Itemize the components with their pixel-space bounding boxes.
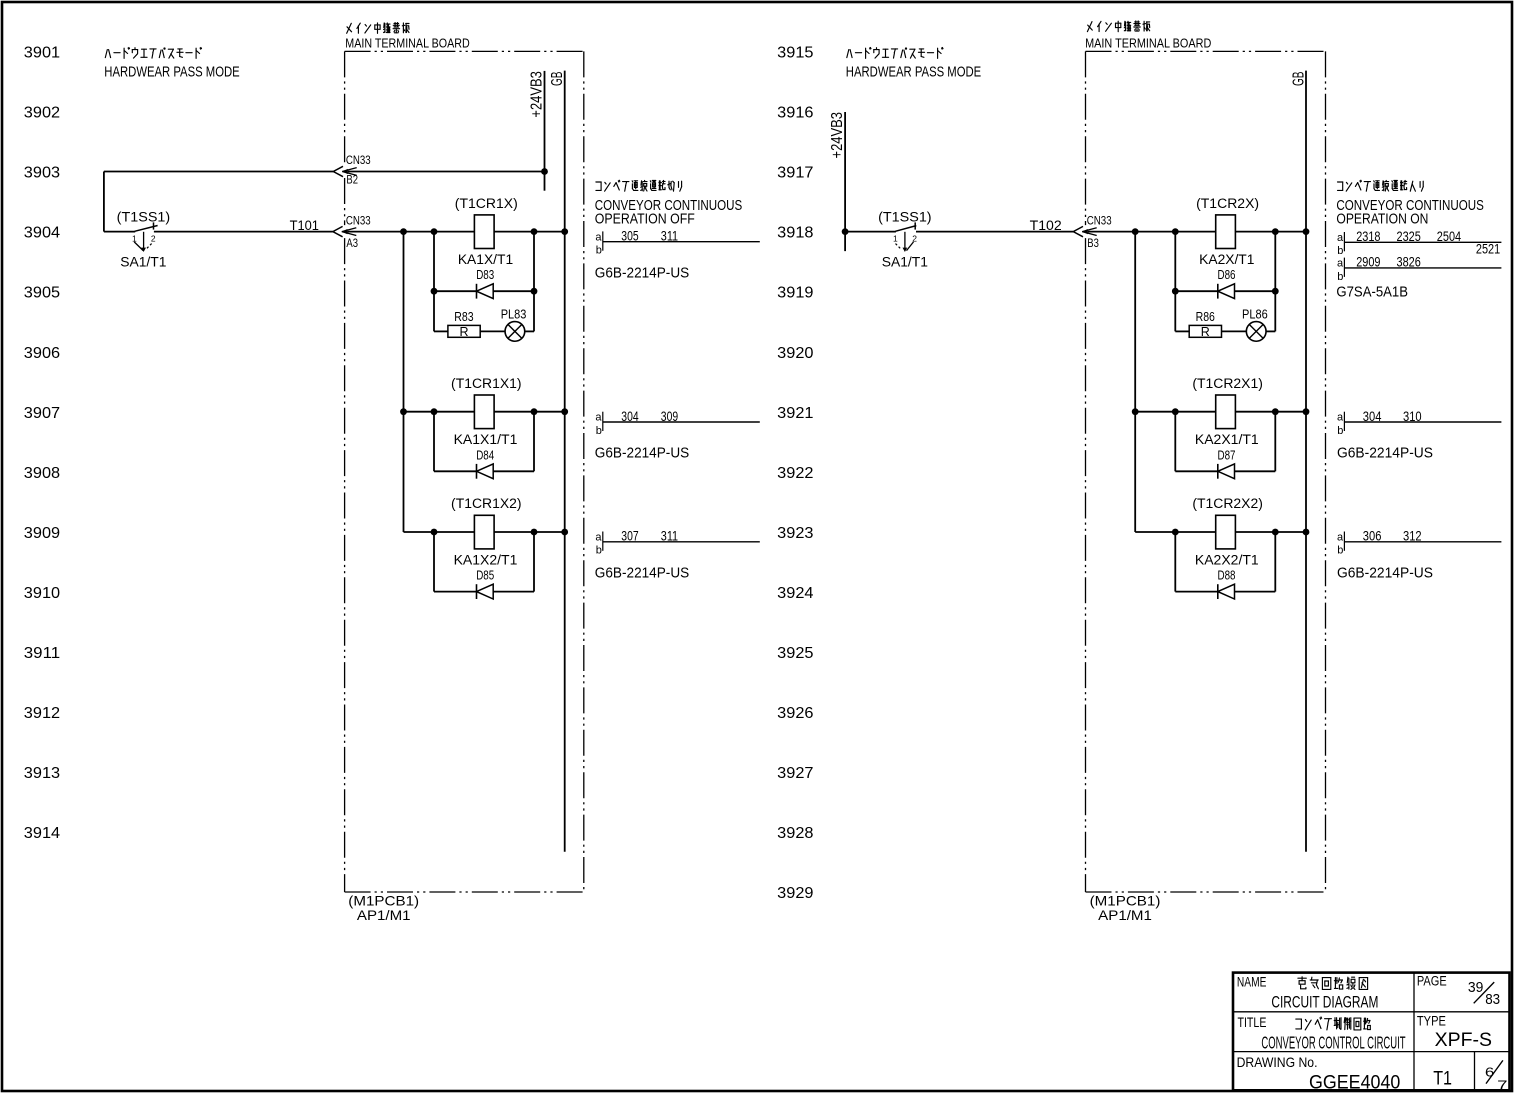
svg-text:3925: 3925: [777, 645, 813, 662]
svg-text:G6B-2214P-US: G6B-2214P-US: [595, 565, 689, 582]
connector CN33 pin B3 arrow: [1073, 226, 1096, 236]
line number 3921: [777, 405, 813, 422]
svg-text:2318: 2318: [1356, 228, 1380, 244]
svg-text:3906: 3906: [24, 345, 60, 362]
junction rung3 subloop-left: [431, 529, 438, 536]
line number 3913: [24, 765, 60, 782]
connector CN33 pin A3 arrow: [333, 226, 356, 236]
line number 3907: [24, 405, 60, 422]
title block NAME: [1237, 975, 1267, 990]
label (M1PCB1) right: [1090, 893, 1161, 909]
title block TITLE: [1238, 1015, 1267, 1030]
junction rung1R subloop-left: [1172, 228, 1179, 235]
wire diode row D87: [1175, 470, 1275, 472]
svg-text:CIRCUIT DIAGRAM: CIRCUIT DIAGRAM: [1271, 992, 1378, 1011]
junction rung2R GB bus: [1303, 408, 1310, 415]
junction rung1 subloop-left: [431, 228, 438, 235]
line number 3915: [777, 45, 813, 62]
svg-text:3921: 3921: [777, 405, 813, 422]
svg-text:OPERATION OFF: OPERATION OFF: [595, 211, 695, 227]
wire rung 3907: [404, 411, 565, 413]
contact block a/b 305 311: [595, 228, 759, 257]
label B3: [1087, 236, 1099, 250]
svg-text:(T1SS1): (T1SS1): [878, 208, 932, 224]
title block TYPE: [1417, 1014, 1446, 1029]
relay coil T1CR2X2: [1216, 515, 1236, 549]
svg-text:(T1CR2X): (T1CR2X): [1196, 196, 1259, 211]
svg-text:GB: GB: [1290, 72, 1307, 87]
line number 3908: [24, 465, 60, 482]
svg-text:3912: 3912: [24, 705, 60, 722]
wire lamp row right: [1175, 330, 1275, 332]
label D83: [476, 268, 494, 282]
label (T1SS1) right: [878, 208, 932, 224]
wire rung 3923: [1135, 531, 1306, 533]
wire +24VB3 to switch: [845, 231, 896, 233]
line number 3916: [777, 105, 813, 122]
label (T1CR2X1): [1192, 376, 1263, 391]
svg-text:2: 2: [151, 233, 156, 243]
svg-text:A3: A3: [346, 236, 358, 250]
svg-text:2521: 2521: [1476, 240, 1500, 256]
wire subloop left D87: [1174, 412, 1176, 472]
svg-text:(M1PCB1): (M1PCB1): [348, 893, 419, 909]
svg-text:a: a: [1337, 232, 1344, 244]
wire subloop left D85: [433, 532, 435, 592]
net +24VB3 label (right): [829, 112, 846, 159]
svg-text:3901: 3901: [24, 45, 60, 62]
junction diode row right D86-right: [1272, 288, 1279, 295]
junction rung3R subloop-right: [1272, 529, 1279, 536]
title block CONVEYOR CONTROL CIRCUIT: [1261, 1033, 1405, 1053]
title block drawing number GGEE4040: [1309, 1072, 1400, 1093]
relay coil T1CR1X2: [474, 515, 494, 549]
junction diode row right D86-left: [1172, 288, 1179, 295]
wire outer loop vertical left: [403, 232, 405, 532]
label (T1CR1X): [455, 196, 518, 211]
svg-text:KA2X1/T1: KA2X1/T1: [1195, 431, 1259, 447]
svg-text:3910: 3910: [24, 585, 60, 602]
svg-text:PAGE: PAGE: [1417, 974, 1447, 989]
junction +24VB3/rung right: [842, 228, 849, 235]
line number 3927: [777, 765, 813, 782]
svg-text:HARDWEAR PASS MODE: HARDWEAR PASS MODE: [104, 64, 239, 81]
label PL86: [1242, 308, 1268, 322]
label (T1CR1X2): [451, 496, 522, 511]
contact block a/b 306 312: [1337, 528, 1501, 557]
svg-text:+24VB3: +24VB3: [528, 71, 545, 118]
wire diode row D86: [1175, 290, 1275, 292]
svg-text:R83: R83: [454, 310, 473, 324]
wire subloop left D86: [1174, 232, 1176, 332]
svg-text:CN33: CN33: [346, 214, 371, 228]
svg-text:307: 307: [621, 528, 638, 544]
line number 3922: [777, 465, 813, 482]
net GB label (left): [549, 72, 566, 87]
junction rung3 subloop-right: [531, 529, 538, 536]
svg-text:3915: 3915: [777, 45, 813, 62]
svg-text:MAIN TERMINAL BOARD: MAIN TERMINAL BOARD: [1085, 36, 1211, 51]
wire left rail vertical: [103, 172, 105, 232]
board MAIN TERMINAL BOARD (left) title jp: [347, 23, 409, 34]
svg-text:309: 309: [661, 408, 678, 424]
contact block a/b 304 310: [1337, 408, 1501, 437]
line number 3902: [24, 105, 60, 122]
note OPERATION ON: [1336, 211, 1428, 227]
svg-text:a: a: [1337, 412, 1344, 424]
wire B2 rail: [104, 171, 545, 173]
svg-text:HARDWEAR PASS MODE: HARDWEAR PASS MODE: [846, 64, 981, 81]
board MAIN TERMINAL BOARD (left) outline: [345, 51, 584, 892]
svg-text:3923: 3923: [777, 525, 813, 542]
wire subloop left D83: [433, 232, 435, 332]
label G6B-2214P-US rung2 right: [1337, 445, 1433, 462]
wire outer loop vertical right: [1134, 232, 1136, 532]
wire lamp row left: [434, 330, 534, 332]
label B2: [346, 173, 358, 187]
svg-text:R86: R86: [1196, 310, 1215, 324]
svg-text:(T1SS1): (T1SS1): [117, 208, 171, 224]
label AP1/M1 left: [357, 907, 411, 923]
label G6B-2214P-US rung3 left: [595, 565, 689, 582]
wire subloop right D86: [1274, 232, 1276, 332]
svg-text:39: 39: [1468, 980, 1484, 996]
wire subloop left D88: [1174, 532, 1176, 592]
connector CN33 pin B2 arrow: [333, 166, 356, 176]
svg-text:XPF-S: XPF-S: [1435, 1029, 1492, 1051]
junction rung1R GB bus: [1303, 228, 1310, 235]
svg-text:3922: 3922: [777, 465, 813, 482]
relay coil T1CR2X1: [1216, 395, 1236, 429]
line number 3926: [777, 705, 813, 722]
svg-text:311: 311: [661, 528, 678, 544]
resistor R86: [1189, 325, 1221, 337]
svg-text:KA1X/T1: KA1X/T1: [458, 251, 514, 267]
label R83: [454, 310, 473, 324]
wire rung 3921: [1135, 411, 1306, 413]
label SA1/T1 left: [120, 253, 166, 269]
label (T1CR2X): [1196, 196, 1259, 211]
label (T1CR2X2): [1192, 496, 1263, 511]
svg-text:D87: D87: [1218, 448, 1236, 462]
line number 3903: [24, 165, 60, 182]
svg-text:(T1CR1X1): (T1CR1X1): [451, 376, 522, 391]
svg-text:3919: 3919: [777, 285, 813, 302]
svg-text:CN33: CN33: [1087, 214, 1112, 228]
svg-text:6: 6: [1485, 1064, 1494, 1079]
label D84: [476, 448, 494, 462]
label CN33 (A3): [346, 214, 371, 228]
line number 3918: [777, 225, 813, 242]
junction rung3R subloop-left: [1172, 529, 1179, 536]
svg-text:b: b: [1337, 245, 1343, 257]
label CN33 (B3): [1087, 214, 1112, 228]
svg-text:306: 306: [1363, 528, 1382, 544]
note HARDWEAR PASS MODE right (jp): [847, 48, 943, 59]
line number 3909: [24, 525, 60, 542]
svg-text:G6B-2214P-US: G6B-2214P-US: [1337, 565, 1433, 582]
svg-text:T1: T1: [1433, 1068, 1452, 1090]
junction rung2R subloop-right: [1272, 408, 1279, 415]
label KA1X/T1: [458, 251, 514, 267]
wire rung 3904: [347, 231, 564, 233]
svg-text:TITLE: TITLE: [1238, 1015, 1267, 1030]
svg-text:TYPE: TYPE: [1417, 1014, 1446, 1029]
note CONVEYOR CONTINUOUS (left): [595, 198, 743, 214]
svg-text:CN33: CN33: [346, 153, 371, 167]
line number 3910: [24, 585, 60, 602]
title block PAGE: [1417, 974, 1447, 989]
svg-text:311: 311: [661, 228, 678, 244]
wire diode row D83: [434, 290, 534, 292]
wire subloop left D84: [433, 412, 435, 472]
lamp PL86: [1246, 322, 1266, 342]
svg-text:305: 305: [621, 228, 638, 244]
junction rung2R subloop-left: [1172, 408, 1179, 415]
svg-text:D86: D86: [1218, 268, 1236, 282]
label AP1/M1 right: [1098, 907, 1152, 923]
title block sheet T1: [1433, 1068, 1452, 1090]
title block page number: [1468, 980, 1500, 1008]
title block name jp: [1298, 977, 1368, 990]
svg-text:SA1/T1: SA1/T1: [882, 253, 928, 269]
value R (R86): [1201, 325, 1210, 339]
line number 3911: [24, 645, 60, 662]
board MAIN TERMINAL BOARD (right) outline: [1086, 51, 1326, 892]
svg-text:SA1/T1: SA1/T1: [120, 253, 166, 269]
label (T1SS1) left: [117, 208, 171, 224]
svg-text:3913: 3913: [24, 765, 60, 782]
line number 3928: [777, 825, 813, 842]
wire rung 3918: [1088, 231, 1306, 233]
junction rung1 subloop-right: [531, 228, 538, 235]
contact block a 2909 3826: [1337, 254, 1501, 283]
junction rung2 subloop-right: [531, 408, 538, 415]
net GB label (right): [1290, 72, 1307, 87]
label CN33 (B2): [346, 153, 371, 167]
svg-text:312: 312: [1403, 528, 1422, 544]
junction +24VB3/B2: [541, 168, 548, 175]
svg-text:3911: 3911: [24, 645, 60, 662]
relay coil T1CR1X: [474, 215, 494, 249]
junction rung2R outer: [1132, 408, 1139, 415]
svg-text:B2: B2: [346, 173, 358, 187]
label KA2X1/T1: [1195, 431, 1259, 447]
svg-text:3905: 3905: [24, 285, 60, 302]
label KA2X/T1: [1199, 251, 1255, 267]
wire GB bus (left): [564, 71, 566, 852]
label 2521: [1476, 240, 1500, 256]
svg-text:KA2X/T1: KA2X/T1: [1199, 251, 1255, 267]
line number 3904: [24, 225, 60, 242]
svg-text:CONVEYOR CONTROL CIRCUIT: CONVEYOR CONTROL CIRCUIT: [1261, 1033, 1405, 1053]
svg-text:3920: 3920: [777, 345, 813, 362]
junction diode row left D83-left: [431, 288, 438, 295]
svg-text:b: b: [596, 545, 602, 557]
svg-text:3902: 3902: [24, 105, 60, 122]
svg-text:3916: 3916: [777, 105, 813, 122]
label D86: [1218, 268, 1236, 282]
label D87: [1218, 448, 1236, 462]
label (M1PCB1) left: [348, 893, 419, 909]
line number 3924: [777, 585, 813, 602]
svg-text:3929: 3929: [777, 885, 813, 902]
svg-text:3909: 3909: [24, 525, 60, 542]
svg-text:83: 83: [1485, 992, 1500, 1008]
wire diode row D84: [434, 470, 534, 472]
svg-text:AP1/M1: AP1/M1: [1098, 907, 1152, 923]
svg-text:DRAWING No.: DRAWING No.: [1237, 1054, 1318, 1070]
svg-text:3918: 3918: [777, 225, 813, 242]
diode D85: [477, 584, 494, 599]
junction rung2 subloop-left: [431, 408, 438, 415]
wire +24VB3 (left): [544, 71, 546, 191]
title block: [1233, 973, 1510, 1091]
svg-text:7: 7: [1497, 1077, 1507, 1092]
line number 3925: [777, 645, 813, 662]
svg-text:2325: 2325: [1397, 228, 1421, 244]
wire +24VB3 (right): [844, 112, 846, 251]
label KA1X2/T1: [454, 551, 518, 567]
note OPERATION OFF: [595, 211, 695, 227]
note HARDWEAR PASS MODE: [104, 64, 239, 81]
svg-text:3907: 3907: [24, 405, 60, 422]
note HARDWEAR PASS MODE (jp): [105, 48, 201, 59]
title block type XPF-S: [1435, 1029, 1492, 1051]
relay coil T1CR1X1: [474, 395, 494, 429]
svg-text:3928: 3928: [777, 825, 813, 842]
line number 3906: [24, 345, 60, 362]
svg-text:R: R: [459, 325, 468, 339]
line number 3905: [24, 285, 60, 302]
svg-text:KA2X2/T1: KA2X2/T1: [1195, 551, 1259, 567]
note HARDWEAR PASS MODE right: [846, 64, 981, 81]
svg-text:2909: 2909: [1356, 254, 1380, 270]
svg-text:3927: 3927: [777, 765, 813, 782]
junction rung1R subloop-right: [1272, 228, 1279, 235]
junction rung3 GB bus: [561, 529, 568, 536]
board MAIN TERMINAL BOARD (right) title: [1085, 36, 1211, 51]
svg-text:+24VB3: +24VB3: [829, 112, 846, 159]
resistor R83: [448, 325, 480, 337]
note CONVEYOR CONTINUOUS (right): [1336, 198, 1484, 214]
board MAIN TERMINAL BOARD (left) title: [345, 35, 469, 50]
title block sheet 6/7: [1485, 1060, 1508, 1092]
svg-text:T101: T101: [290, 217, 320, 233]
wire T101: [154, 231, 333, 233]
junction rung1 GB bus: [561, 228, 568, 235]
wire rung 3909: [404, 531, 565, 533]
title block title jp: [1296, 1017, 1371, 1030]
svg-text:(T1CR1X): (T1CR1X): [455, 196, 518, 211]
svg-text:(T1CR2X1): (T1CR2X1): [1192, 376, 1263, 391]
svg-text:(M1PCB1): (M1PCB1): [1090, 893, 1161, 909]
line number 3912: [24, 705, 60, 722]
svg-text:a: a: [1337, 258, 1344, 270]
svg-text:3926: 3926: [777, 705, 813, 722]
diode D86: [1218, 284, 1235, 299]
diode D83: [477, 284, 494, 299]
contact block a/b 304 309: [595, 408, 759, 437]
svg-text:3904: 3904: [24, 225, 60, 242]
svg-text:a: a: [595, 231, 602, 243]
junction rung2 GB bus: [561, 408, 568, 415]
svg-text:b: b: [1337, 425, 1343, 437]
svg-text:2504: 2504: [1437, 228, 1461, 244]
line number 3901: [24, 45, 60, 62]
label G6B-2214P-US rung3 right: [1337, 565, 1433, 582]
svg-text:3914: 3914: [24, 825, 60, 842]
wire subloop right D88: [1274, 532, 1276, 592]
label SA1/T1 right: [882, 253, 928, 269]
label A3: [346, 236, 358, 250]
svg-text:B3: B3: [1087, 236, 1099, 250]
lamp PL83: [505, 322, 525, 342]
svg-text:a: a: [595, 412, 602, 424]
svg-text:NAME: NAME: [1237, 975, 1267, 990]
title block CIRCUIT DIAGRAM: [1271, 992, 1378, 1011]
svg-text:KA1X2/T1: KA1X2/T1: [454, 551, 518, 567]
label G7SA-5A1B: [1336, 284, 1408, 301]
svg-text:MAIN TERMINAL BOARD: MAIN TERMINAL BOARD: [345, 35, 469, 50]
wire subloop right D84: [533, 412, 535, 472]
wire subloop right D83: [533, 232, 535, 332]
diode D88: [1218, 584, 1235, 599]
svg-text:a: a: [1337, 531, 1344, 543]
svg-text:PL86: PL86: [1242, 308, 1268, 322]
diode D84: [477, 464, 494, 479]
label G6B-2214P-US rung1 left: [595, 264, 689, 281]
svg-text:3826: 3826: [1397, 254, 1421, 270]
line number 3914: [24, 825, 60, 842]
contact block a/b 307 311: [595, 528, 759, 557]
value R (R83): [459, 325, 468, 339]
svg-text:3924: 3924: [777, 585, 813, 602]
svg-text:KA1X1/T1: KA1X1/T1: [454, 431, 518, 447]
svg-text:b: b: [596, 425, 602, 437]
svg-text:b: b: [1337, 545, 1343, 557]
svg-text:D88: D88: [1218, 569, 1236, 583]
line number 3919: [777, 285, 813, 302]
svg-text:b: b: [596, 245, 602, 257]
wire T102: [916, 231, 1073, 233]
svg-text:PL83: PL83: [501, 308, 527, 322]
svg-text:304: 304: [1363, 408, 1382, 424]
switch SA1/T1 (T1SS1) right: [893, 222, 917, 252]
svg-text:(T1CR1X2): (T1CR1X2): [451, 496, 522, 511]
svg-text:3903: 3903: [24, 165, 60, 182]
svg-text:D83: D83: [476, 268, 494, 282]
contact block a 2318 2325 2504: [1337, 228, 1501, 257]
svg-text:OPERATION ON: OPERATION ON: [1336, 211, 1428, 227]
svg-text:3908: 3908: [24, 465, 60, 482]
label (T1CR1X1): [451, 376, 522, 391]
svg-text:T102: T102: [1030, 217, 1062, 233]
svg-text:1: 1: [893, 233, 898, 243]
label G6B-2214P-US rung2 left: [595, 445, 689, 462]
svg-text:b: b: [1337, 271, 1343, 283]
junction rung1R outer: [1132, 228, 1139, 235]
svg-text:GB: GB: [549, 72, 566, 87]
svg-text:G6B-2214P-US: G6B-2214P-US: [1337, 445, 1433, 462]
label T102: [1030, 217, 1062, 233]
line number 3929: [777, 885, 813, 902]
title block DRAWING No.: [1237, 1054, 1318, 1070]
label PL83: [501, 308, 527, 322]
wire subloop right D87: [1274, 412, 1276, 472]
svg-text:GGEE4040: GGEE4040: [1309, 1072, 1400, 1093]
board MAIN TERMINAL BOARD (right) title jp: [1087, 21, 1149, 32]
